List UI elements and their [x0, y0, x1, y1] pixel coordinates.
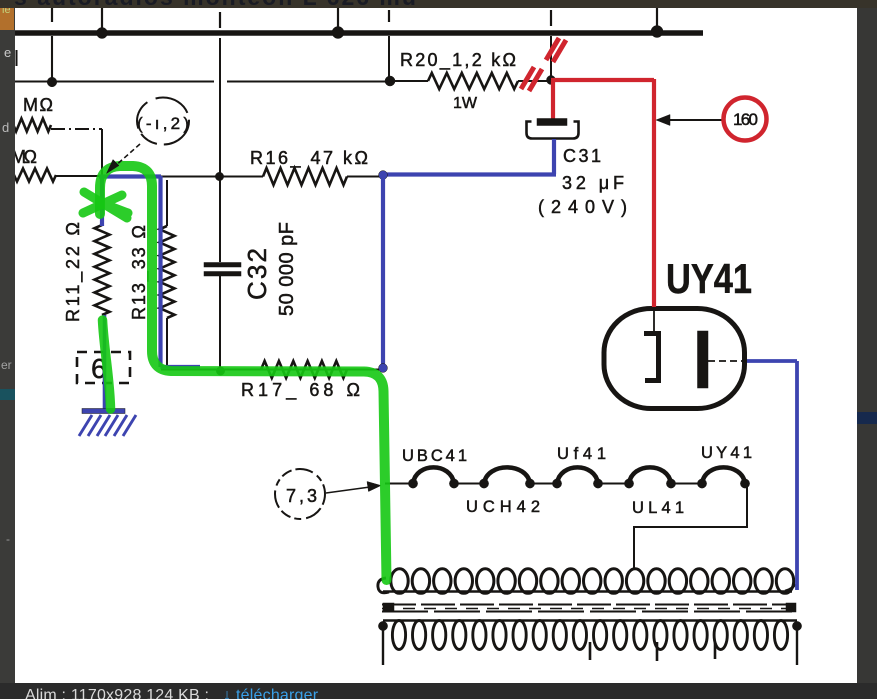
annotation red circle 160	[724, 98, 767, 141]
svg-text:R20_1,2 kΩ: R20_1,2 kΩ	[400, 50, 516, 71]
wire R17 row	[161, 369, 383, 371]
svg-text:C31: C31	[563, 146, 601, 166]
inductor UCH42 heater hump	[484, 467, 530, 483]
wire vertical x102 to node	[101, 129, 103, 176]
capacitor C31 can	[527, 122, 579, 139]
svg-text:Uf41: Uf41	[557, 445, 606, 463]
svg-text:R17_ 68 Ω: R17_ 68 Ω	[241, 380, 360, 401]
svg-text:7,3: 7,3	[286, 486, 317, 506]
svg-text:ΜΩ: ΜΩ	[15, 147, 37, 167]
wire row y176 left	[56, 175, 102, 177]
wire stub left edge	[16, 50, 18, 66]
inductor UBC41 heater hump	[413, 467, 454, 483]
tube UY41 cathode lead	[653, 309, 655, 331]
wire heater chain to transformer	[634, 484, 747, 569]
annotation red slashes on bus drop	[546, 38, 566, 62]
tube UY41 envelope	[604, 309, 745, 409]
svg-text:UCH42: UCH42	[466, 498, 540, 516]
wire blue C31 negative lead	[552, 139, 556, 174]
annotation green ground stroke	[103, 320, 111, 409]
annotation circle 7,3	[275, 469, 325, 519]
svg-text:R13_33 Ω: R13_33 Ω	[129, 225, 150, 320]
capacitor C31 plate	[537, 119, 567, 126]
svg-text:MΩ: MΩ	[23, 95, 53, 115]
node junction x220 y371	[216, 367, 224, 375]
resistor MΩ 1	[8, 119, 51, 132]
tube UY41 cathode	[644, 334, 659, 381]
node junction x220 y176	[215, 172, 223, 180]
wire vertical x338 above bus	[337, 8, 339, 31]
tube UY41 anode	[698, 331, 709, 388]
wire stub above bus x52	[51, 8, 53, 22]
wire main HT bus	[15, 30, 703, 36]
page left strip	[0, 8, 15, 683]
svg-text:UY41: UY41	[666, 255, 752, 302]
wire row y81 mid segment	[227, 81, 390, 83]
node primary right terminal	[792, 621, 801, 630]
ground symbol	[82, 409, 125, 414]
inductor UL41 heater hump	[629, 467, 671, 483]
wire R20 left lead	[390, 80, 428, 82]
inductor transformer secondary (top coil)	[391, 569, 408, 594]
wire arrow from 160	[663, 119, 722, 121]
page right strip	[857, 8, 877, 683]
wire top coil left curl	[378, 578, 389, 593]
inductor UY41 heater hump	[702, 467, 745, 483]
node bus junction 1	[97, 28, 108, 39]
inductor UF41 heater hump	[557, 467, 598, 483]
wire bus to R20 drop x389	[388, 36, 390, 80]
wire arrow to heater chain	[326, 487, 370, 493]
wire red HT trace	[551, 80, 555, 120]
svg-text:UY41: UY41	[701, 444, 752, 462]
resistor R13	[160, 226, 175, 318]
node junction x52 row	[47, 77, 57, 87]
wire anode dash lead	[708, 360, 746, 362]
resistor R20	[428, 73, 518, 89]
resistor R11	[95, 225, 110, 315]
wire blue R11 top lead	[100, 176, 104, 226]
inductor transformer primary (bottom coil)	[383, 619, 797, 621]
page bottom bar	[0, 683, 877, 699]
svg-text:UBC41: UBC41	[402, 447, 467, 465]
svg-text:50 000 pF: 50 000 pF	[276, 222, 298, 316]
wire blue row to C31	[383, 172, 556, 176]
wire row y176 mid (node to R16)	[102, 176, 263, 178]
node blue junction x383 y176	[379, 171, 388, 180]
wire blue node to R13 top	[99, 174, 161, 178]
annotation green trace main	[100, 166, 387, 580]
wire primary taps	[590, 642, 715, 661]
svg-text:32 μF: 32 μF	[562, 173, 624, 193]
wire R16 right lead	[347, 176, 383, 178]
wire stub above bus x220	[219, 12, 221, 28]
wire vertical x102 above bus	[101, 8, 103, 31]
wire row y81 left segment	[15, 81, 214, 83]
box terminal 6	[77, 352, 130, 383]
annotation circle (-1,2)	[137, 98, 189, 145]
resistor MΩ 2	[8, 169, 56, 182]
node bus junction 2	[332, 27, 344, 39]
svg-text:R11_22 Ω: R11_22 Ω	[63, 222, 84, 322]
annotation green X	[83, 192, 128, 218]
svg-text:160: 160	[733, 110, 758, 129]
wire bus to R20 drop x551	[550, 36, 552, 80]
wire vertical x657 above bus	[656, 8, 658, 30]
wire heater chain baseline	[385, 483, 702, 485]
node top coil right end	[785, 584, 795, 591]
annotation red slashes on R20 lead	[521, 67, 542, 91]
wire blue R11 bottom to ground	[103, 315, 107, 409]
svg-text:(-ı,2): (-ı,2)	[137, 114, 189, 133]
wire stub above bus x389	[388, 10, 390, 22]
wire blue anode out	[747, 361, 797, 590]
wire blue x161 down	[161, 176, 201, 367]
node bus junction 3	[651, 26, 663, 38]
svg-text:C32: C32	[242, 248, 272, 300]
resistor R16	[263, 168, 347, 185]
node primary left terminal	[378, 621, 387, 630]
wire blue x383 down	[381, 175, 385, 368]
wire R20 right lead	[518, 80, 552, 82]
node junction x390 R20 left	[385, 76, 395, 86]
svg-text:UL41: UL41	[632, 499, 684, 517]
svg-text:1W: 1W	[453, 95, 478, 112]
page top bar	[0, 0, 877, 8]
capacitor C32	[204, 263, 241, 268]
svg-text:(240V): (240V)	[538, 197, 627, 217]
resistor R17	[261, 361, 347, 378]
wire x220 bus down to C32	[219, 38, 221, 262]
wire stub above bus x551	[550, 10, 552, 26]
node blue junction x383 y368	[379, 364, 388, 373]
transformer core	[383, 603, 394, 612]
wire dashed arrow to node	[114, 144, 140, 167]
node junction x551	[547, 76, 556, 85]
wire dash-dot link to grid node	[51, 128, 102, 130]
wire bus to row drop x52	[51, 36, 53, 82]
